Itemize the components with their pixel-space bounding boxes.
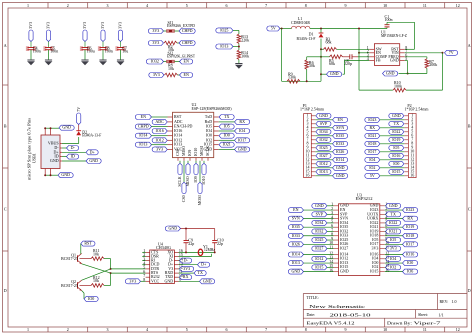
- net flag IO6 at U3 right pin 16: [385, 269, 418, 275]
- svg-text:C: C: [4, 207, 7, 212]
- net flag IO13 at U3 left pin 14: [288, 260, 333, 266]
- capacitor C8 220p: [343, 54, 370, 66]
- svg-text:IO13: IO13: [139, 142, 147, 147]
- module U3 ESP3212: [339, 192, 380, 275]
- svg-text:RX: RX: [407, 216, 413, 221]
- svg-text:GND: GND: [61, 172, 70, 177]
- chip U4 CH340G usb-serial: [142, 241, 183, 283]
- svg-text:GND: GND: [336, 173, 345, 178]
- header P1 pin 6 net IO35: [307, 133, 348, 139]
- header P1 pin 5 net IO34: [307, 129, 332, 135]
- net flag IO2 at U3 right pin 15: [385, 264, 401, 270]
- svg-text:6: 6: [226, 327, 228, 332]
- svg-text:GND: GND: [330, 71, 339, 76]
- svg-text:IO32: IO32: [151, 59, 159, 64]
- net flag ID from usb: [62, 154, 79, 160]
- svg-text:IO0: IO0: [224, 133, 230, 138]
- svg-text:IO0: IO0: [393, 161, 399, 166]
- svg-text:IO0: IO0: [88, 296, 94, 301]
- header P2 pin 12 net IO4: [365, 157, 415, 163]
- svg-text:RX: RX: [370, 125, 376, 130]
- svg-text:RX: RX: [239, 119, 245, 124]
- svg-text:IO2: IO2: [390, 264, 396, 269]
- net flag 3V3 at U2 left pin 8: [152, 146, 167, 152]
- svg-text:TxD: TxD: [205, 114, 212, 119]
- svg-text:EasyEDA V5.4.12: EasyEDA V5.4.12: [307, 320, 355, 325]
- svg-text:3: 3: [107, 3, 109, 8]
- svg-text:3V3: 3V3: [46, 22, 51, 29]
- net flag CHPD at U2 left pin 3: [135, 124, 167, 130]
- svg-text:3V3: 3V3: [129, 278, 136, 283]
- solder jumper SJ1 ESP8266_EXTPD row: [148, 20, 195, 34]
- svg-text:IO9: IO9: [193, 176, 198, 182]
- svg-text:30k: 30k: [309, 63, 315, 68]
- svg-text:D-: D-: [184, 258, 189, 263]
- svg-text:IO4: IO4: [390, 256, 396, 261]
- net flag IO13 at U2 left pin 7: [135, 142, 167, 148]
- svg-text:10: 10: [383, 3, 387, 8]
- svg-text:GND: GND: [89, 158, 98, 163]
- net flag TX at U2 right pin 9: [219, 114, 234, 120]
- net flag SVP at U3 left pin 3: [312, 211, 334, 217]
- header P1 pin 3 net SVP: [307, 121, 332, 127]
- net flag GND at U3 left pin 1: [312, 203, 334, 209]
- svg-text:IO18: IO18: [406, 233, 414, 238]
- svg-text:3V3: 3V3: [153, 72, 160, 77]
- svg-text:16: 16: [306, 173, 310, 178]
- svg-text:3V3: 3V3: [156, 146, 163, 151]
- svg-text:B: B: [4, 124, 7, 129]
- svg-text:IO0: IO0: [407, 260, 413, 265]
- wire EN to vertical net: [359, 52, 369, 54]
- header P2 pin 6 net IO21: [365, 133, 414, 139]
- svg-text:12MHz: 12MHz: [204, 247, 215, 252]
- svg-text:5: 5: [186, 327, 188, 332]
- svg-text:IO35: IO35: [292, 224, 300, 229]
- svg-text:GND: GND: [340, 269, 349, 274]
- svg-text:TX: TX: [224, 114, 229, 119]
- svg-text:CHPD: CHPD: [182, 28, 193, 33]
- svg-text:100n: 100n: [385, 17, 393, 22]
- net flag IO0 at U2 right pin 13: [219, 133, 234, 139]
- svg-text:SVP: SVP: [316, 211, 324, 216]
- svg-text:D+: D+: [201, 262, 207, 267]
- svg-text:CS0: CS0: [181, 195, 186, 202]
- svg-text:22p: 22p: [188, 241, 194, 246]
- svg-text:7V: 7V: [76, 107, 81, 112]
- svg-text:IO17: IO17: [406, 241, 414, 246]
- svg-text:ESP-12F(ESP8266MOD): ESP-12F(ESP8266MOD): [192, 106, 233, 111]
- svg-text:IO14: IO14: [174, 133, 182, 138]
- svg-text:IO17: IO17: [238, 137, 246, 142]
- svg-text:IO16: IO16: [392, 153, 400, 158]
- svg-text:A: A: [468, 43, 471, 48]
- svg-text:IO17: IO17: [368, 149, 376, 154]
- svg-text:2018-05-10: 2018-05-10: [330, 312, 371, 317]
- svg-text:1: 1: [27, 327, 29, 332]
- svg-text:TX: TX: [391, 211, 396, 216]
- svg-text:TITLE:: TITLE:: [307, 295, 319, 300]
- svg-text:GND: GND: [203, 278, 212, 283]
- svg-text:IO12: IO12: [319, 161, 327, 166]
- svg-text:CS0: CS0: [175, 149, 180, 156]
- svg-text:EN: EN: [338, 117, 343, 122]
- header P1 pin 14 net GND: [306, 165, 348, 171]
- lower vertical net flags below U2: [181, 161, 202, 206]
- svg-text:3: 3: [107, 327, 109, 332]
- header P2 pin 8 net IO18: [365, 141, 414, 147]
- svg-text:IO22: IO22: [389, 220, 397, 225]
- svg-text:IO5: IO5: [393, 145, 399, 150]
- resistor R14 100k: [237, 50, 249, 63]
- net flag GND at FB network: [327, 61, 370, 77]
- svg-text:micro SP Smt plate type 0.7e P: micro SP Smt plate type 0.7e Pins: [27, 117, 32, 180]
- svg-text:22p: 22p: [217, 241, 223, 246]
- junction at D1: [320, 28, 322, 30]
- resistor R10 100k feedback: [359, 53, 443, 92]
- svg-text:RST: RST: [174, 114, 182, 119]
- net flag RX at U3 right pin 4: [385, 216, 418, 222]
- svg-text:ADC: ADC: [174, 119, 183, 124]
- svg-text:IO19: IO19: [392, 137, 400, 142]
- net flag IO16 at U3 right pin 12: [385, 252, 418, 258]
- svg-text:ID: ID: [71, 154, 75, 159]
- svg-text:CHPD: CHPD: [138, 124, 149, 129]
- junction on 5V rail: [281, 28, 283, 30]
- svg-text:12: 12: [456, 3, 460, 8]
- net flag IO21 at U3 right pin 7: [385, 228, 401, 234]
- svg-text:IO25: IO25: [315, 237, 323, 242]
- diode D1 B340A-13-F: [297, 29, 324, 82]
- svg-text:68k: 68k: [326, 39, 332, 44]
- net flag IO18 at U3 right pin 8: [385, 233, 418, 239]
- net flag RST: [81, 241, 95, 254]
- svg-text:3V3: 3V3: [152, 28, 159, 33]
- svg-text:5V: 5V: [370, 173, 375, 178]
- net flag IO26 at U3 left pin 10: [288, 241, 333, 247]
- svg-text:7: 7: [265, 3, 267, 8]
- svg-text:GND: GND: [50, 158, 59, 163]
- svg-text:Viper-7: Viper-7: [414, 321, 441, 326]
- svg-text:Drawn By:: Drawn By:: [387, 320, 412, 325]
- svg-text:3V3: 3V3: [82, 22, 87, 29]
- svg-text:D: D: [468, 288, 471, 293]
- header P2 pin 1 net GND: [389, 113, 413, 119]
- svg-text:IO19: IO19: [406, 224, 414, 229]
- svg-text:IO0: IO0: [206, 133, 212, 138]
- svg-text:GND: GND: [392, 113, 401, 118]
- svg-text:5V: 5V: [271, 26, 276, 31]
- net flag RX at U2 right pin 10: [219, 119, 250, 125]
- net flag GND at U3 left pin 16: [288, 269, 333, 275]
- svg-text:IO33: IO33: [292, 233, 300, 238]
- svg-text:IO5: IO5: [224, 124, 230, 129]
- svg-text:IO33: IO33: [336, 141, 344, 146]
- svg-text:TX: TX: [198, 270, 203, 275]
- svg-text:TX: TX: [394, 121, 399, 126]
- net flag IO0 at U3 right pin 14: [385, 260, 418, 266]
- module U2 ESP-12F ESP8266MOD: [168, 102, 233, 161]
- header P1 pin 12 net IO14: [306, 157, 348, 163]
- svg-text:220p: 220p: [344, 61, 352, 66]
- svg-text:1.0: 1.0: [452, 299, 457, 304]
- crystal Y1 body: [198, 244, 215, 256]
- svg-text:FB: FB: [376, 58, 381, 63]
- header P2 pin 16 net 5V: [365, 173, 415, 179]
- svg-text:GND: GND: [336, 165, 345, 170]
- svg-text:IO16: IO16: [406, 252, 414, 257]
- resistor R6 30k: [305, 57, 321, 82]
- resistor R12 10k: [91, 275, 104, 287]
- svg-text:100u: 100u: [87, 49, 95, 54]
- header P1 pin 13 net IO12: [306, 161, 332, 167]
- svg-text:IO13: IO13: [319, 169, 327, 174]
- svg-text:1*16P 2.54mm: 1*16P 2.54mm: [300, 107, 325, 112]
- net flag TX at U3 right pin 3: [385, 211, 401, 217]
- net flag IO0 at Q2 emitter: [82, 291, 99, 302]
- svg-text:3V3: 3V3: [100, 22, 105, 29]
- header P2 pin 10 net IO17: [365, 149, 415, 155]
- svg-text:ESP3212: ESP3212: [356, 196, 373, 201]
- svg-text:EN: EN: [293, 207, 298, 212]
- capacitor C4 100n with 3V3 flag and ground: [26, 22, 41, 65]
- net flag IO5 at U2 right pin 11: [219, 124, 234, 130]
- net flag IO12 at U2 left pin 6: [152, 137, 167, 143]
- svg-text:GND: GND: [168, 226, 177, 231]
- svg-text:IO26: IO26: [336, 149, 344, 154]
- svg-text:GND: GND: [389, 203, 398, 208]
- header P2 pin 15 net IO15: [389, 169, 414, 175]
- wire rail to D1 and C1: [310, 28, 387, 30]
- svg-text:100n: 100n: [50, 49, 58, 54]
- svg-text:100n: 100n: [105, 49, 113, 54]
- svg-text:IO5: IO5: [390, 237, 396, 242]
- svg-text:10: 10: [383, 327, 387, 332]
- net flag IO4 at U2 right pin 12: [219, 128, 250, 134]
- svg-text:9: 9: [345, 3, 347, 8]
- svg-text:SCLK: SCLK: [177, 176, 182, 186]
- svg-text:4: 4: [146, 327, 148, 332]
- wire XO to crystal: [179, 251, 216, 253]
- svg-text:IO21: IO21: [223, 142, 231, 147]
- resistor R5 68k on COMP: [321, 55, 343, 66]
- transistor Q1 BC817-25: [61, 252, 91, 264]
- net flag GND from usb: [62, 158, 101, 164]
- net flag IO34 at U3 left pin 5: [312, 220, 334, 226]
- svg-text:IO27: IO27: [315, 246, 323, 251]
- svg-text:Date:: Date:: [307, 312, 316, 317]
- svg-text:MISO: MISO: [181, 146, 186, 156]
- svg-text:MOSI: MOSI: [197, 195, 202, 206]
- net flag GND at CH340: [179, 278, 215, 284]
- capacitor C8 100n with 3V3 flag and ground: [98, 22, 113, 65]
- svg-text:IO23: IO23: [368, 117, 376, 122]
- vertical net flags below U2: [177, 161, 206, 187]
- svg-text:9: 9: [345, 327, 347, 332]
- net flag IO25 at U3 left pin 9: [312, 237, 334, 243]
- svg-text:100n: 100n: [33, 49, 41, 54]
- op-amp U1 MP1584EN-LF-Z buck regulator IC: [367, 29, 408, 65]
- header P1 pin 4 net SVN: [307, 125, 348, 131]
- net flag RX at CH340 TXD: [179, 274, 192, 280]
- svg-text:MP1584EN-LF-Z: MP1584EN-LF-Z: [381, 33, 407, 38]
- svg-text:100k: 100k: [394, 83, 402, 88]
- header P2 pin 9 net IO5: [389, 145, 413, 151]
- net flag GND usb shield top: [44, 125, 74, 131]
- resistor R7 200k: [425, 59, 437, 74]
- capacitor C5 100n with 3V3 flag and ground: [43, 22, 58, 65]
- net flag IO4 at U3 right pin 13: [385, 256, 401, 262]
- svg-text:IO18: IO18: [368, 141, 376, 146]
- svg-text:RST: RST: [84, 241, 92, 246]
- svg-text:IO32: IO32: [319, 137, 327, 142]
- svg-text:IO35: IO35: [336, 133, 344, 138]
- svg-text:IO14: IO14: [292, 252, 300, 257]
- net flag 3V3 at U3 right pin 11: [385, 246, 401, 252]
- svg-text:CH340G: CH340G: [156, 245, 171, 250]
- svg-text:2: 2: [67, 3, 69, 8]
- svg-text:IO34: IO34: [319, 129, 327, 134]
- svg-text:3V3: 3V3: [118, 22, 123, 29]
- svg-text:EN: EN: [184, 72, 189, 77]
- solder jumper SJ2 ESP8266_GLPRST row: [146, 50, 195, 64]
- svg-text:10k: 10k: [93, 251, 99, 256]
- svg-text:8: 8: [305, 3, 307, 8]
- svg-text:D+: D+: [90, 149, 96, 154]
- USB connector USB1 micro: [27, 117, 63, 180]
- svg-text:IO12: IO12: [155, 137, 163, 142]
- svg-text:D: D: [4, 288, 7, 293]
- diode D2 B340A-13-F from VBUS: [62, 125, 102, 144]
- svg-text:1*16P 2.54mm: 1*16P 2.54mm: [405, 107, 430, 112]
- svg-text:CHPD: CHPD: [182, 40, 193, 45]
- net flag IO14 at U2 left pin 5: [135, 133, 167, 139]
- net flag D- at CH340: [179, 258, 192, 264]
- svg-text:D-: D-: [71, 145, 76, 150]
- svg-text:3V3: 3V3: [372, 246, 379, 251]
- cross wires to CH340 DTR RTS: [82, 259, 146, 286]
- svg-text:IO10: IO10: [201, 176, 206, 184]
- svg-text:IO32: IO32: [315, 228, 323, 233]
- resistor R2 10k pullup row: [148, 40, 195, 52]
- crystal circuit Y1 12MHz with C9 C10 22p: [165, 226, 223, 253]
- svg-text:IO4: IO4: [239, 128, 245, 133]
- svg-text:GND: GND: [291, 269, 300, 274]
- svg-text:B: B: [468, 124, 471, 129]
- wire vertical EN net: [358, 29, 360, 91]
- svg-text:IO15: IO15: [370, 269, 378, 274]
- svg-text:GND: GND: [319, 113, 328, 118]
- svg-text:GND: GND: [390, 58, 399, 63]
- wire FREQ to R7: [405, 57, 427, 59]
- header P2 pin 4 net RX: [365, 125, 414, 131]
- net flag IO16 at U2 left pin 4: [152, 128, 167, 134]
- svg-text:3V3: 3V3: [183, 266, 190, 271]
- svg-text:ESP8266_GLPRST: ESP8266_GLPRST: [167, 53, 195, 58]
- net flag ADC at U2 left pin 2: [152, 119, 167, 125]
- net flag IO13 into divider midpoint: [216, 44, 239, 51]
- header P1 1x16P 2.54mm: [300, 103, 325, 177]
- resistor R8 10k pullup row: [149, 63, 193, 78]
- svg-text:16: 16: [410, 173, 414, 178]
- wire 5V rail: [280, 28, 292, 30]
- svg-text:200k: 200k: [429, 62, 437, 67]
- svg-text:12: 12: [456, 327, 460, 332]
- svg-text:BC817-25: BC817-25: [61, 256, 78, 261]
- resistor R13 220k: [237, 34, 249, 44]
- header P2 pin 11 net IO16: [389, 153, 414, 159]
- net flag 7V above D2: [77, 113, 81, 125]
- svg-text:7V: 7V: [449, 50, 454, 55]
- svg-text:IO15: IO15: [392, 169, 400, 174]
- net flag TX at CH340 RXD: [179, 270, 207, 276]
- svg-text:B340A-13-F: B340A-13-F: [82, 133, 102, 138]
- svg-text:IO2: IO2: [369, 165, 375, 170]
- svg-text:3V3: 3V3: [28, 22, 33, 29]
- svg-text:IO23: IO23: [406, 207, 414, 212]
- svg-text:GND: GND: [386, 71, 395, 76]
- svg-text:11: 11: [423, 3, 427, 8]
- svg-text:1: 1: [27, 3, 29, 8]
- wire GND flag branch: [321, 73, 327, 75]
- net flag IO35 at U3 left pin 6: [288, 224, 333, 230]
- svg-text:220k: 220k: [241, 38, 249, 43]
- svg-text:BC817-25: BC817-25: [61, 283, 78, 288]
- svg-text:IO25: IO25: [220, 27, 228, 32]
- svg-text:IO14: IO14: [139, 133, 147, 138]
- svg-text:IO15: IO15: [315, 264, 323, 269]
- svg-text:IO13: IO13: [220, 44, 228, 49]
- header P1 pin 11 net IO27: [306, 153, 331, 159]
- header P1 pin 7 net IO32: [307, 137, 332, 143]
- net flag IO17 at U2 right pin 14: [219, 137, 250, 143]
- transistor Q2 BC817-25: [61, 279, 92, 291]
- svg-text:IO25: IO25: [319, 145, 327, 150]
- svg-text:A: A: [4, 43, 7, 48]
- net flag IO17 at U3 right pin 10: [385, 241, 418, 247]
- wire GND pin to gnd net: [405, 61, 409, 75]
- svg-text:ADC: ADC: [155, 119, 164, 124]
- svg-text:IO9: IO9: [187, 150, 192, 156]
- svg-text:10k: 10k: [168, 66, 174, 71]
- header P2 1x16P 2.54mm: [405, 103, 430, 177]
- svg-text:Sheet:: Sheet:: [418, 312, 428, 317]
- net flag 5V buck output: [267, 26, 280, 32]
- svg-text:8: 8: [305, 327, 307, 332]
- svg-text:IO4: IO4: [369, 157, 375, 162]
- net flag GND usb shield bottom: [44, 172, 73, 178]
- header P1 pin 9 net IO25: [307, 145, 332, 151]
- capacitor C1 100n bootstrap: [385, 14, 415, 49]
- ground rail with resistor R9 130k: [282, 71, 321, 83]
- svg-text:GND: GND: [62, 125, 71, 130]
- net flag D- from usb: [62, 145, 79, 151]
- capacitor C6 100u with 3V3 flag and ground: [80, 22, 95, 65]
- svg-text:EN: EN: [184, 59, 189, 64]
- header P2 pin 14 net IO2: [365, 165, 415, 171]
- net flag IO15 at U3 left pin 15: [312, 264, 334, 270]
- header P1 pin 16 net GND: [306, 173, 348, 179]
- net flag IO5 at U3 right pin 9: [385, 237, 401, 243]
- svg-text:VCC: VCC: [151, 278, 160, 283]
- header P2 pin 5 net IO22: [389, 129, 413, 135]
- svg-text:RxD: RxD: [205, 119, 213, 124]
- net flag D+ from usb: [62, 149, 98, 155]
- header P1 pin 15 net IO13: [306, 169, 332, 175]
- svg-text:2: 2: [67, 327, 69, 332]
- svg-text:REV:: REV:: [440, 299, 449, 304]
- svg-text:68k: 68k: [329, 61, 335, 66]
